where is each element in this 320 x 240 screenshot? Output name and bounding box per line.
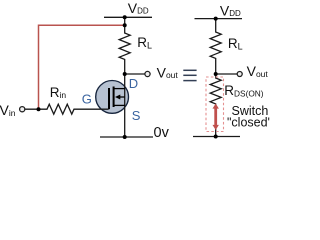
svg-text:G: G [82,91,92,106]
svg-text:"closed": "closed" [227,116,270,130]
svg-text:S: S [132,108,141,123]
svg-text:D: D [129,76,138,91]
svg-text:0v: 0v [154,125,170,141]
